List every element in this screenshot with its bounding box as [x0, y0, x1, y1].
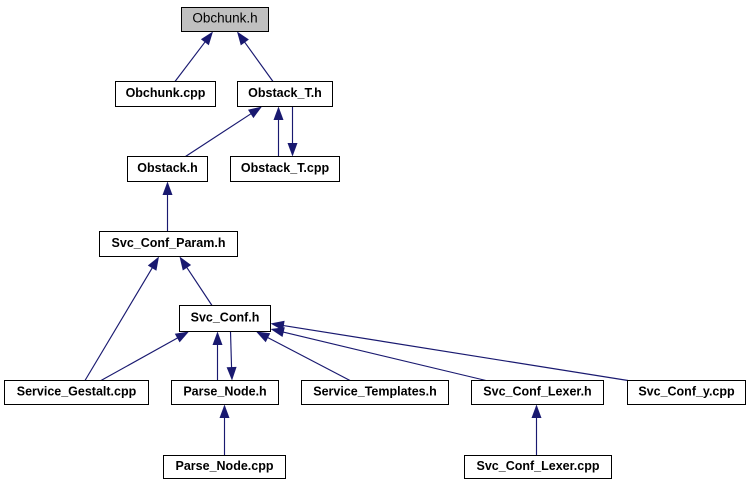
edge Service_Templates.h->Svc_Conf.h	[256, 332, 350, 381]
svg-text:Parse_Node.h: Parse_Node.h	[183, 385, 266, 399]
node Parse_Node.cpp	[164, 456, 286, 479]
svg-text:Svc_Conf_Lexer.cpp: Svc_Conf_Lexer.cpp	[477, 459, 600, 473]
node Svc_Conf_Lexer.cpp	[465, 456, 612, 479]
node Service_Templates.h	[302, 381, 449, 405]
node Obchunk.cpp	[116, 82, 216, 107]
node Svc_Conf_y.cpp	[628, 381, 746, 405]
edge Obstack_T.h->Obchunk.h	[237, 32, 273, 82]
node Service_Gestalt.cpp	[5, 381, 149, 405]
node Obchunk.h	[182, 8, 269, 32]
svg-text:Obchunk.h: Obchunk.h	[192, 11, 257, 26]
edge Parse_Node.cpp->Parse_Node.h	[220, 405, 230, 456]
svg-text:Obstack_T.h: Obstack_T.h	[248, 86, 322, 100]
edge Parse_Node.h->Svc_Conf.h	[213, 332, 223, 381]
edge Obchunk.cpp->Obchunk.h	[175, 32, 213, 82]
node Svc_Conf_Lexer.h	[472, 381, 604, 405]
node Obstack_T.cpp	[231, 157, 340, 182]
edge Obstack_T.cpp->Obstack_T.h	[274, 107, 284, 157]
svg-text:Obstack.h: Obstack.h	[137, 161, 197, 175]
node Svc_Conf_Param.h	[100, 232, 238, 257]
edge Svc_Conf_Lexer.h->Svc_Conf.h	[271, 327, 487, 380]
edge Svc_Conf_Lexer.cpp->Svc_Conf_Lexer.h	[532, 405, 542, 456]
svg-text:Svc_Conf_Param.h: Svc_Conf_Param.h	[112, 236, 226, 250]
svg-text:Svc_Conf_y.cpp: Svc_Conf_y.cpp	[638, 385, 735, 399]
edge Svc_Conf.h->Svc_Conf_Param.h	[180, 257, 213, 306]
node Obstack.h	[128, 157, 208, 182]
node Parse_Node.h	[172, 381, 279, 405]
edge Svc_Conf_y.cpp->Svc_Conf.h	[271, 321, 629, 381]
edge Obstack.h->Obstack_T.h	[186, 107, 263, 157]
node Svc_Conf.h	[180, 306, 271, 332]
svg-text:Parse_Node.cpp: Parse_Node.cpp	[176, 459, 274, 473]
node Obstack_T.h	[238, 82, 333, 107]
edge Svc_Conf_Param.h->Obstack.h	[163, 182, 173, 232]
edge Svc_Conf.h->Parse_Node.h	[227, 332, 237, 381]
svg-text:Svc_Conf_Lexer.h: Svc_Conf_Lexer.h	[483, 385, 591, 399]
svg-text:Service_Templates.h: Service_Templates.h	[313, 385, 436, 399]
svg-text:Obstack_T.cpp: Obstack_T.cpp	[241, 161, 330, 175]
edge Service_Gestalt.cpp->Svc_Conf.h	[101, 332, 189, 381]
edge Service_Gestalt.cpp->Svc_Conf_Param.h	[85, 257, 159, 381]
edge Obstack_T.h->Obstack_T.cpp	[288, 107, 298, 157]
svg-text:Service_Gestalt.cpp: Service_Gestalt.cpp	[17, 385, 137, 399]
svg-text:Svc_Conf.h: Svc_Conf.h	[191, 311, 260, 325]
svg-text:Obchunk.cpp: Obchunk.cpp	[126, 86, 206, 100]
